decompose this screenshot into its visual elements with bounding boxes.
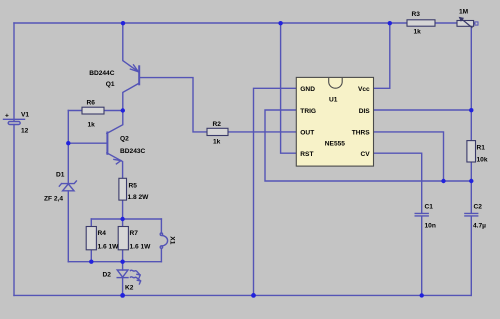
svg-text:U1: U1	[329, 97, 338, 104]
svg-text:1k: 1k	[88, 122, 96, 129]
svg-text:C2: C2	[474, 203, 483, 210]
svg-text:1.6 1W: 1.6 1W	[98, 243, 120, 250]
svg-text:BD244C: BD244C	[89, 70, 115, 77]
svg-text:RST: RST	[300, 151, 313, 158]
svg-text:1k: 1k	[213, 139, 221, 146]
svg-text:V1: V1	[21, 112, 29, 119]
svg-text:CV: CV	[361, 151, 371, 158]
svg-text:Q2: Q2	[120, 135, 129, 142]
svg-text:+: +	[5, 112, 9, 119]
svg-text:1M: 1M	[459, 8, 469, 15]
svg-text:10n: 10n	[425, 222, 436, 229]
svg-text:K2: K2	[125, 284, 134, 291]
svg-text:Q1: Q1	[106, 81, 115, 88]
svg-text:4.7µ: 4.7µ	[473, 223, 486, 230]
svg-text:1.6 1W: 1.6 1W	[130, 243, 152, 250]
svg-text:GND: GND	[300, 86, 315, 93]
svg-text:R6: R6	[87, 99, 96, 106]
svg-text:R5: R5	[129, 182, 138, 189]
svg-text:R3: R3	[412, 11, 421, 18]
svg-text:BD243C: BD243C	[120, 148, 146, 155]
svg-text:D1: D1	[56, 172, 65, 179]
svg-text:DIS: DIS	[359, 108, 371, 115]
svg-text:NE555: NE555	[325, 141, 345, 148]
svg-text:10k: 10k	[477, 157, 488, 164]
svg-text:R1: R1	[477, 144, 486, 151]
svg-text:R4: R4	[98, 230, 107, 237]
svg-text:D2: D2	[103, 271, 112, 278]
svg-text:OUT: OUT	[300, 130, 314, 137]
svg-text:1k: 1k	[414, 29, 422, 36]
svg-text:Vcc: Vcc	[358, 86, 370, 93]
svg-text:C1: C1	[425, 203, 434, 210]
svg-text:12: 12	[21, 127, 29, 134]
svg-text:THRS: THRS	[352, 130, 371, 137]
svg-text:ZF 2,4: ZF 2,4	[44, 196, 63, 203]
svg-text:1.8 2W: 1.8 2W	[128, 194, 150, 201]
svg-text:R7: R7	[130, 230, 139, 237]
svg-text:R2: R2	[213, 121, 222, 128]
svg-text:TRIG: TRIG	[300, 108, 316, 115]
svg-text:X1: X1	[168, 236, 175, 244]
